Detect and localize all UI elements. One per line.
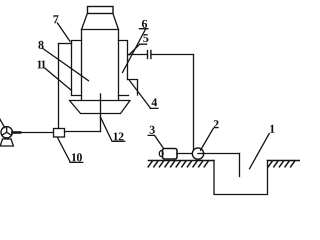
vessel shoulder (82, 14, 119, 30)
ground line right of pit (268, 160, 300, 162)
pipe hopper to box 10 (65, 131, 101, 133)
pipe into pit (239, 154, 241, 177)
label 10 leader (58, 138, 83, 163)
label 3 leader (148, 135, 163, 148)
label 6 leader (123, 29, 149, 73)
hopper (70, 101, 131, 114)
motor end cap (159, 151, 163, 157)
left outer jacket top (59, 43, 72, 45)
down pipe to pump (193, 55, 195, 151)
fan coupling (thick) (12, 131, 20, 134)
label 2 (214, 120, 219, 128)
left inner jacket (72, 41, 82, 96)
fan circle (1, 127, 12, 138)
vessel body left wall (81, 30, 83, 101)
right inner jacket (119, 41, 129, 96)
label 8 leader (43, 49, 89, 81)
label 11 leader (45, 68, 71, 90)
union/valve tick 2 (150, 51, 152, 59)
label 7 (54, 15, 59, 23)
label 3 (150, 126, 155, 134)
pump center tick (198, 153, 204, 155)
vessel body right wall (118, 30, 120, 101)
fan inlet diagonal (0, 119, 5, 128)
ground line left of pit (149, 160, 215, 162)
hatching right ground (268, 161, 295, 167)
pump circle P2 (192, 148, 203, 159)
union/valve tick 1 (147, 51, 149, 59)
label 7 leader (57, 23, 70, 41)
fan base (0, 139, 13, 146)
box 10 (valve) (54, 129, 65, 138)
hatching left ground (148, 161, 208, 167)
label 8 (38, 41, 43, 49)
label 5 leader (129, 44, 147, 55)
label 4 (152, 98, 158, 106)
label 12 leader (100, 117, 125, 142)
motor M3 cylinder (163, 149, 178, 160)
left outer jacket wall / drain pipe (58, 44, 60, 129)
label 6 (142, 20, 147, 28)
label 5 (143, 34, 148, 42)
fan spokes (2, 127, 12, 136)
central dip pipe (100, 94, 102, 132)
label 12 (114, 133, 124, 141)
right jacket step outlet (128, 80, 138, 96)
label 1 leader (250, 134, 270, 169)
label 4 leader (130, 81, 159, 109)
pipe to down corner (152, 54, 194, 56)
label 1 (270, 125, 274, 133)
label 10 (72, 153, 82, 161)
pipe fan to box 10 (12, 132, 53, 134)
motor shaft (177, 153, 192, 155)
vessel cap (88, 7, 114, 14)
top outlet pipe from jacket (128, 54, 146, 56)
pump outlet pipe (204, 153, 240, 155)
label 11 (37, 61, 45, 69)
label 2 leader (201, 129, 214, 151)
pit (quench tank) (214, 161, 268, 195)
